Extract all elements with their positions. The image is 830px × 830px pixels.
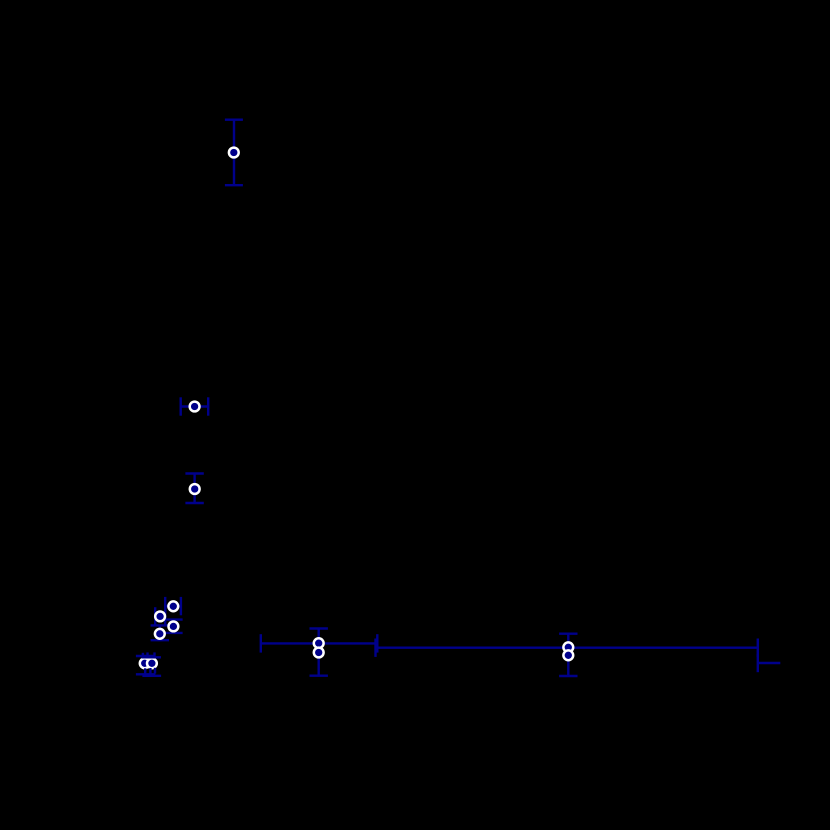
error bar E3 vertical [185, 474, 203, 504]
point D9 [147, 658, 157, 668]
error bar E16 horizontal clipped at right [758, 654, 781, 672]
error bar E9 top caps for cluster B [136, 656, 161, 657]
error bar E5 horizontal for point D5 [155, 607, 165, 625]
error bar E12 vertical for points D10 D11 [310, 629, 328, 676]
error bar E15 horizontal for point D12 [376, 639, 758, 657]
point D3 [190, 484, 200, 494]
error bar E11 bottom caps for cluster B [136, 674, 161, 676]
point D8 [140, 658, 150, 668]
point D10 [314, 638, 324, 648]
point D5 [155, 612, 165, 622]
point D1 [229, 148, 239, 158]
error bar E6 vertical for point D6 [164, 620, 182, 633]
point D11 [314, 648, 324, 658]
error bar E10 vertical stub lower for cluster B [145, 668, 155, 675]
point D2 [190, 402, 200, 412]
point D4 [168, 601, 178, 611]
error bar E8 vertical stub upper for cluster B [143, 652, 155, 658]
error bar E2 horizontal [181, 397, 209, 415]
error bar E4 horizontal for point D4 [165, 597, 181, 615]
error bar E1 vertical [225, 120, 243, 186]
point D7 [155, 629, 165, 639]
point D12 [563, 642, 573, 652]
error bar E13 horizontal for point D10 [261, 634, 378, 652]
point D13 [563, 650, 573, 660]
point D6 [169, 622, 179, 632]
error bar E14 vertical for points D12 D13 [559, 634, 577, 676]
error bar E7 vertical for point D7 [151, 625, 169, 640]
